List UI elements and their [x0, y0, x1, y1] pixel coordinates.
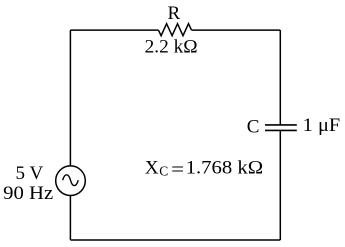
svg-text:5 V: 5 V	[16, 163, 44, 184]
svg-text:1.768 kΩ: 1.768 kΩ	[186, 158, 264, 179]
svg-text:90 Hz: 90 Hz	[3, 183, 53, 204]
wire right upper segment	[279, 30, 281, 125]
AC source circle	[56, 166, 86, 196]
svg-text:=: =	[171, 160, 184, 181]
wire bottom segment	[70, 239, 280, 241]
capacitor C bottom plate	[265, 129, 297, 131]
svg-text:X: X	[145, 158, 159, 179]
svg-text:R: R	[167, 3, 180, 24]
resistor R	[158, 24, 191, 36]
svg-text:1 μF: 1 μF	[303, 115, 341, 136]
svg-text:C: C	[159, 164, 168, 179]
AC source sine wave	[63, 175, 78, 186]
svg-text:C: C	[247, 117, 260, 138]
capacitor C top plate	[265, 124, 297, 126]
svg-text:2.2 kΩ: 2.2 kΩ	[145, 36, 198, 57]
wire top-right segment	[192, 29, 281, 31]
wire right lower segment	[279, 130, 281, 240]
wire top-left segment	[70, 29, 158, 31]
wire left lower segment	[69, 195, 71, 240]
wire left upper segment	[69, 30, 71, 166]
